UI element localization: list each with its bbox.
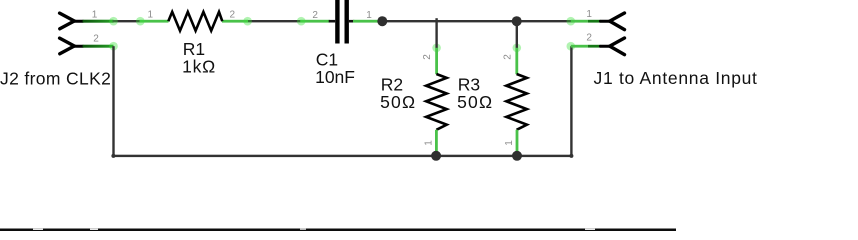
resistor R2 top pin lead (green) [435, 48, 438, 74]
resistor R3 bottom pin lead (green) [516, 130, 519, 156]
wire: J1 pin2 vertical drop [570, 46, 572, 156]
svg-text:2: 2 [586, 32, 592, 43]
junction dot R3 bottom [512, 151, 522, 161]
connector J1 pin1 lead (green over pin) [571, 20, 588, 23]
corner dot bottom-right [569, 154, 573, 158]
wire: top net segment between J2 and R1 [113, 20, 142, 22]
junction dot R3 top [512, 16, 522, 26]
svg-text:1: 1 [148, 10, 154, 21]
glow at J2 pin2 corner [109, 42, 118, 51]
svg-text:2: 2 [312, 10, 318, 21]
resistor R1 body [168, 12, 222, 31]
resistor R2 bottom pin lead (green) [435, 130, 438, 156]
glow at R2 bottom pin end [432, 151, 441, 160]
glow at J1 pin1 end [567, 17, 576, 26]
glow at R1 pin2 end [243, 17, 252, 26]
wire: R3 top stub [516, 21, 518, 48]
J2 pin2 lead (highlighted dark green) [83, 45, 114, 48]
capacitor C1 pin1 lead (green) [353, 20, 383, 23]
J2 pin1 lead (highlighted dark green) [83, 20, 114, 23]
svg-text:1kΩ: 1kΩ [182, 57, 216, 77]
connector J2 pin 2 glyph [60, 38, 83, 54]
svg-text:1: 1 [366, 10, 372, 21]
svg-text:2: 2 [93, 34, 99, 45]
capacitor C1 pin2 lead (green) [300, 20, 330, 23]
svg-text:J2 from CLK2: J2 from CLK2 [0, 68, 111, 88]
svg-text:10nF: 10nF [315, 67, 355, 87]
svg-text:2: 2 [422, 54, 433, 60]
glow at R3 top pin end [513, 44, 522, 53]
connector J2 pin 1 glyph [60, 13, 83, 29]
connector J1 pin2 lead (green over pin) [571, 45, 588, 48]
wire: bottom return [112, 155, 572, 157]
svg-text:2: 2 [230, 10, 236, 21]
capacitor C1 left plate [335, 0, 339, 44]
capacitor C1 pin1 stub [349, 20, 355, 23]
svg-text:J1 to Antenna Input: J1 to Antenna Input [594, 68, 758, 88]
connector J1 pin2 glyph [600, 38, 624, 55]
svg-text:1: 1 [424, 140, 435, 146]
resistor R3 body [506, 74, 527, 130]
glow at R2 top pin end [432, 44, 441, 53]
glow at R1 pin1 end [136, 17, 145, 26]
resistor R3 top pin lead (green) [515, 48, 518, 74]
resistor R1 pin1 lead (green) [140, 20, 169, 23]
clipped caption strip at bottom edge [0, 229, 676, 232]
svg-text:1: 1 [586, 9, 592, 20]
glow at C1 pin1 end [378, 17, 386, 25]
wire: J2 pin2 vertical drop [112, 46, 114, 156]
svg-text:1: 1 [92, 10, 98, 21]
glow at J1 pin2 corner [567, 42, 576, 51]
glow at C1 pin2 end [297, 17, 306, 26]
junction dot R2 bottom [431, 151, 441, 161]
wire: segment C1 junction to J1 [381, 20, 571, 22]
svg-text:50Ω: 50Ω [457, 92, 493, 112]
resistor R1 pin2 lead (green) [222, 20, 248, 23]
wire: R2 top stub [435, 18, 437, 48]
svg-text:2: 2 [502, 54, 513, 60]
glow at J2 pin1 end [109, 17, 118, 26]
junction dot after C1 [377, 16, 387, 26]
svg-text:1: 1 [504, 140, 515, 146]
resistor R2 body [426, 74, 447, 130]
connector J1 pin1 glyph [600, 13, 624, 30]
glow at R3 bottom pin end [512, 151, 521, 160]
capacitor C1 pin2 stub [329, 20, 336, 23]
capacitor C1 right plate [345, 0, 349, 44]
wire: segment between R1 and C1 [247, 20, 303, 22]
svg-text:50Ω: 50Ω [380, 92, 416, 112]
corner dot bottom-left [111, 154, 115, 158]
